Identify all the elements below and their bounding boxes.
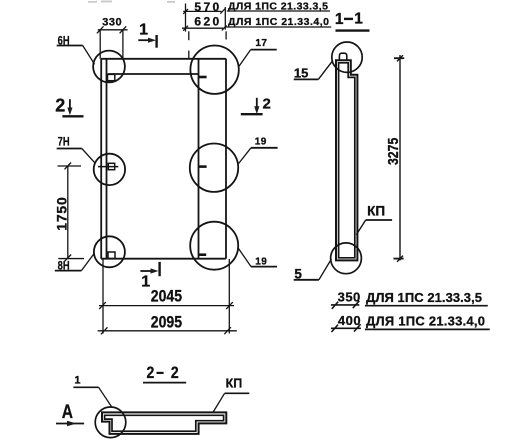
svg-text:2: 2 <box>147 364 155 382</box>
svg-text:1750: 1750 <box>53 196 69 230</box>
svg-text:19: 19 <box>255 137 267 148</box>
svg-text:КП: КП <box>367 204 385 219</box>
svg-text:7Н: 7Н <box>58 135 70 148</box>
svg-text:620: 620 <box>194 15 221 29</box>
svg-text:2095: 2095 <box>151 313 183 331</box>
svg-text:1: 1 <box>74 375 80 387</box>
svg-text:2: 2 <box>171 364 179 382</box>
svg-text:1: 1 <box>139 22 148 39</box>
svg-text:ДЛЯ 1ПС 21.33.3,5: ДЛЯ 1ПС 21.33.3,5 <box>228 1 328 13</box>
svg-text:1: 1 <box>141 274 150 291</box>
svg-text:15: 15 <box>294 65 308 80</box>
svg-text:3275: 3275 <box>385 137 401 165</box>
svg-text:1: 1 <box>354 10 363 27</box>
svg-text:17: 17 <box>255 38 267 49</box>
svg-text:570: 570 <box>194 0 221 14</box>
svg-text:А: А <box>62 401 74 423</box>
svg-text:330: 330 <box>102 17 122 29</box>
svg-text:2: 2 <box>263 96 271 113</box>
svg-text:ДЛЯ 1ПС 21.33.4,0: ДЛЯ 1ПС 21.33.4,0 <box>366 314 485 329</box>
svg-text:400: 400 <box>338 313 361 328</box>
svg-text:2: 2 <box>55 96 65 116</box>
svg-text:КП: КП <box>226 376 243 390</box>
svg-text:ДЛЯ 1ПС 21.33.4,0: ДЛЯ 1ПС 21.33.4,0 <box>228 16 329 28</box>
svg-text:1: 1 <box>335 11 344 28</box>
svg-text:ДЛЯ 1ПС 21.33.3,5: ДЛЯ 1ПС 21.33.3,5 <box>366 290 482 305</box>
svg-text:2045: 2045 <box>151 287 183 305</box>
